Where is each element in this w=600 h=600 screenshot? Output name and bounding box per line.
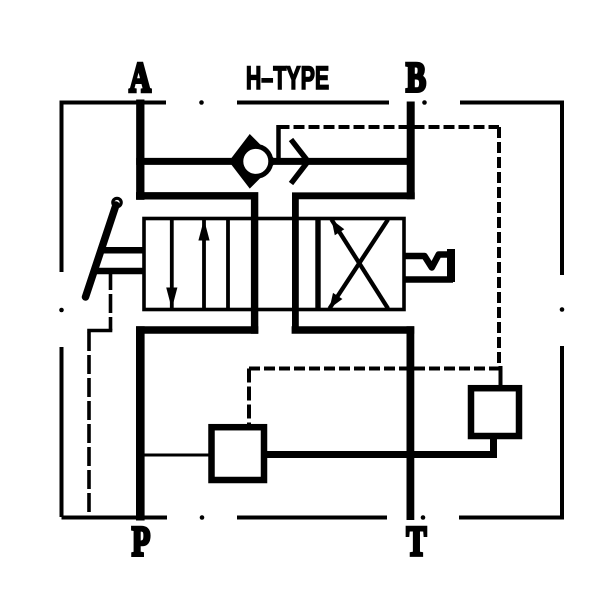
wire: elbow right to T riser — [292, 326, 415, 333]
pilot drop (dashed) to relief valve RV1 — [247, 369, 251, 426]
relief valve RV1 body — [212, 427, 265, 480]
wire: port T line down through bottom border — [406, 326, 414, 520]
valve V1 crossed-flow diagonal 2 (with down-left arrow) — [330, 220, 389, 309]
drain line (dashed) from lever prong stepping down to bottom border — [109, 271, 113, 331]
detent symbol on valve right side — [404, 255, 449, 268]
flow direction arrow (chevron) on main line — [291, 140, 308, 184]
wire: elbow left to P riser — [136, 326, 258, 333]
svg-text:A: A — [129, 54, 151, 101]
valve V1 divider line (right box left edge) — [315, 219, 320, 310]
relief valve RV2 body — [471, 388, 519, 436]
svg-text:P: P — [132, 518, 150, 565]
pilot stub to relief valve RV2 — [499, 366, 503, 386]
wire: main line A to B through check valve — [136, 158, 411, 165]
valve V1 internal plain line — [226, 219, 230, 310]
wire: B elbow left and down through valve right box — [295, 196, 414, 334]
valve V1 crossed-flow diagonal 1 (with up-left arrow) — [332, 220, 389, 309]
wire: port P line down through bottom border — [136, 326, 145, 520]
lever pivot — [113, 198, 121, 206]
wire: RV1 to drain junction (heavy) — [265, 451, 498, 458]
lever lower prong to valve — [92, 268, 144, 275]
wire: P line to RV1 (thin) — [142, 454, 211, 457]
pilot line riser (solid) from main line up to dashed pilot line — [276, 125, 281, 161]
pilot line (dashed) horizontal top run — [279, 125, 500, 129]
pilot line (dashed) right vertical run — [497, 127, 501, 369]
check valve CV1 ball (circle) — [241, 146, 271, 176]
wire: port B line down from top border — [407, 102, 415, 200]
valve V1 internal line with up arrow — [202, 219, 206, 310]
directional valve V1 body (envelope) — [144, 219, 404, 310]
wire: RV2 bottom stub down to drain wire — [490, 437, 497, 456]
check valve CV1 seat (diamond) — [232, 138, 274, 185]
enclosure border top (dash-dot) — [62, 101, 562, 105]
enclosure border left (dash-dot) — [60, 101, 64, 518]
enclosure border right (dash-dot) — [560, 101, 564, 520]
pilot line (dashed) lower horizontal run — [249, 367, 499, 371]
lever arm — [86, 205, 117, 297]
svg-text:B: B — [406, 54, 426, 101]
wire: A elbow right and down through valve left box — [136, 196, 255, 334]
svg-text:T: T — [406, 518, 426, 565]
wire: port A line down from top border — [136, 100, 144, 200]
lever upper prong to valve — [98, 247, 144, 254]
valve V1 internal line with down arrow — [170, 219, 174, 310]
enclosure border bottom (dash-dot) — [62, 516, 563, 520]
svg-text:H–TYPE: H–TYPE — [246, 60, 329, 96]
